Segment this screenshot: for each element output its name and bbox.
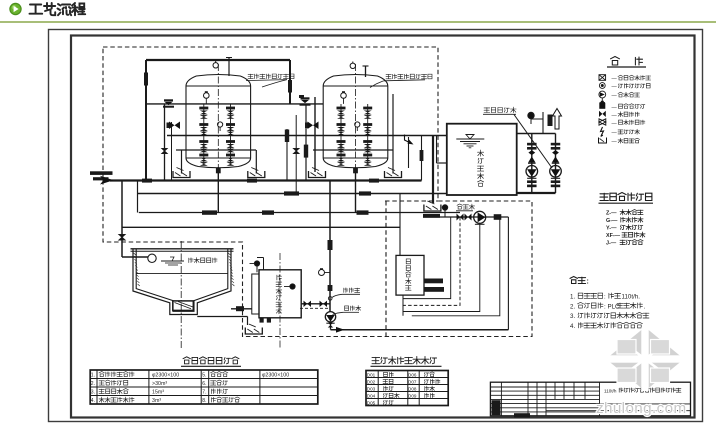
filter bottom stubs xyxy=(260,318,264,323)
drain tray x433 xyxy=(424,205,441,212)
ball valve dosing xyxy=(442,205,447,210)
valve ibeam riser B bottom xyxy=(551,180,561,183)
svg-text:J-—: J-— xyxy=(606,241,617,247)
valve block on sediment outlet xyxy=(236,306,244,311)
svg-text:3m³: 3m³ xyxy=(152,398,161,404)
drain drop x408.5 xyxy=(408,137,410,168)
svg-text:D07: D07 xyxy=(408,380,417,385)
filter top pipe xyxy=(263,258,265,270)
drain tray under T1 left xyxy=(173,171,190,178)
hollow arrow up xyxy=(553,109,562,130)
svg-text::: : xyxy=(587,279,589,286)
tank T1 top pipe xyxy=(228,57,230,76)
valve block x306 xyxy=(305,104,307,181)
right table grid xyxy=(366,371,448,406)
svg-text:5.: 5. xyxy=(202,373,206,379)
dashed segment y201 left ext xyxy=(385,200,438,202)
svg-text:XF-—: XF-— xyxy=(606,233,621,239)
sediment tank rim xyxy=(131,248,234,250)
tank T1 centerline xyxy=(217,64,219,177)
svg-text:—: — xyxy=(612,76,618,82)
label to-ditch hook xyxy=(405,135,412,144)
pipe pump header top xyxy=(517,133,556,135)
dosing unit box xyxy=(396,255,424,295)
valve ibeam riser A top xyxy=(527,143,537,146)
svg-text:—: — xyxy=(612,139,618,145)
pipe header y150 tank2 xyxy=(313,149,393,151)
tank T1 gauge upper xyxy=(204,93,210,99)
left table grid xyxy=(90,370,318,404)
valve diamond riser B xyxy=(552,150,559,155)
backwash drop pipe x330 xyxy=(329,181,331,312)
legend item centrifugal pump xyxy=(599,91,606,98)
valve block x550 xyxy=(548,115,553,127)
sediment neck inner box xyxy=(173,301,194,311)
dosing pump P4 xyxy=(474,211,486,223)
valve bowtie pair x174 y125 xyxy=(169,122,180,130)
main discharge run y329.7 xyxy=(331,329,509,331)
valve bowtie on dosing line xyxy=(457,214,464,221)
valve block on manifold b xyxy=(247,179,257,183)
svg-text:D01: D01 xyxy=(367,373,376,378)
header green rule xyxy=(0,21,716,23)
inner border frame xyxy=(71,36,695,418)
valve blocks on dosing line xyxy=(423,214,440,218)
svg-text:8.: 8. xyxy=(202,398,206,404)
dashed tail y308 xyxy=(300,307,328,309)
filter unit centerline xyxy=(279,253,281,348)
valve bowtie on y303.8 a xyxy=(304,301,312,307)
pipe long header y135.5 xyxy=(167,135,447,137)
legend item electric butterfly valve xyxy=(599,103,605,109)
svg-text:—: — xyxy=(612,112,618,118)
svg-text:4.: 4. xyxy=(91,398,95,404)
pump P1 xyxy=(526,166,538,178)
icon: green play bullet xyxy=(10,3,21,14)
svg-text:>30m³: >30m³ xyxy=(152,381,167,387)
pipe drop x433 thick xyxy=(432,136,434,203)
sediment tank label xyxy=(189,258,217,263)
svg-text:G-—: G-— xyxy=(606,218,618,224)
pipe riser left of tank1 xyxy=(145,60,147,181)
gauge on backwash pipe xyxy=(319,270,325,276)
svg-text:D02: D02 xyxy=(367,380,376,385)
signal line L2 dashed xyxy=(403,217,460,305)
valve double-triangle on x122 xyxy=(119,235,125,241)
valve block on manifold a xyxy=(142,179,152,183)
dosing unit label xyxy=(406,259,410,264)
sediment tank centerline xyxy=(180,241,182,350)
tank T1 valve column right xyxy=(226,107,235,110)
pipe-code heading xyxy=(600,193,652,201)
title block outline xyxy=(490,382,690,416)
supply break bars xyxy=(90,171,113,175)
supply break bar2 xyxy=(93,177,109,180)
valve ibeam riser A bottom xyxy=(527,180,537,183)
valve cluster left of T1 on y104 xyxy=(164,99,173,101)
sediment to filter pipe xyxy=(231,308,252,310)
sediment tank shell outer xyxy=(133,249,231,315)
water level symbol in clean tank xyxy=(456,138,484,140)
label to drain bottom xyxy=(345,306,361,311)
legend item check valve xyxy=(599,111,606,117)
tank T2 vessel body xyxy=(323,75,388,168)
pipe drop x421.5 xyxy=(421,136,423,181)
legend item drain gutter xyxy=(599,138,607,144)
watermark logo xyxy=(606,327,684,391)
tank T1 top vent fitting xyxy=(213,63,218,68)
valve block on riser x290 xyxy=(288,80,292,93)
pipe link x137.5 xyxy=(137,181,139,213)
svg-text:—: — xyxy=(612,104,618,110)
drop pipe x543 xyxy=(542,112,544,134)
title block black cell xyxy=(492,400,501,415)
tank T2 gauge upper xyxy=(341,93,347,99)
node circle backwash xyxy=(328,297,332,301)
tank T2 inner pipe left xyxy=(340,104,342,163)
tank T2 gauge mid xyxy=(355,122,360,127)
leader diagonal to pump xyxy=(514,115,552,169)
svg-text:: PLC: : PLC xyxy=(604,303,620,310)
svg-text:1.: 1. xyxy=(570,294,575,301)
svg-text:110t/h.: 110t/h. xyxy=(622,294,641,301)
svg-text:.: . xyxy=(644,303,646,310)
ball valve top right xyxy=(528,112,534,118)
label coagulant xyxy=(457,204,475,209)
drain tray bottom center xyxy=(245,328,262,335)
pipe manifold y193.5 xyxy=(138,193,447,195)
pump P3 outlet xyxy=(330,322,332,330)
pump P2 xyxy=(550,166,562,178)
svg-text:—: — xyxy=(612,130,618,136)
valve block on manifold c xyxy=(369,179,379,183)
dosing unit feed xyxy=(399,194,401,256)
dosing unit stub a xyxy=(424,279,443,284)
pipe vertical x297 xyxy=(295,115,297,194)
raw water inlet run y257 xyxy=(122,256,148,258)
tank T1 inner pipe left xyxy=(203,104,205,163)
filter inlet ball xyxy=(254,261,259,266)
svg-text:2.: 2. xyxy=(570,303,575,310)
title block black bar bottom xyxy=(514,413,530,417)
pipe header y104 xyxy=(146,103,323,105)
clean tank vertical label xyxy=(478,150,484,156)
backwash pump P3 xyxy=(325,312,335,322)
pipe riser left of tank2 xyxy=(314,97,316,172)
pipe vertical x287 xyxy=(286,129,288,181)
svg-text:2.: 2. xyxy=(91,381,95,387)
dashed boundary polygon xyxy=(103,47,532,337)
tank T2 inner pipe right xyxy=(367,104,369,163)
sediment tank shell inner xyxy=(136,249,228,311)
svg-text:φ2300×100: φ2300×100 xyxy=(262,373,289,379)
tank T1 inner pipe right xyxy=(230,104,232,163)
label air-supply T2 xyxy=(386,74,432,79)
svg-text:6.: 6. xyxy=(202,381,206,387)
svg-text:15m³: 15m³ xyxy=(152,390,164,396)
label air-supply T1 xyxy=(248,74,294,79)
check valve riser A xyxy=(528,156,536,162)
sediment tank inlet circle xyxy=(148,254,156,262)
svg-text:D08: D08 xyxy=(408,387,417,392)
dashed vertical x386 xyxy=(385,201,387,337)
drain tray under T1 right xyxy=(248,171,265,178)
label backwash water xyxy=(344,288,360,293)
filter gauge ball xyxy=(290,284,295,289)
sediment tank wall hatch xyxy=(134,253,136,255)
label to-demi-tank xyxy=(484,107,516,113)
dosing unit stub b xyxy=(424,287,444,292)
dosing unit drain xyxy=(402,295,404,316)
valve block y212.5 c xyxy=(357,210,369,214)
signal line L3 xyxy=(403,224,480,312)
svg-text:Z-—: Z-— xyxy=(606,211,617,217)
pipe top air manifold tank1 xyxy=(146,59,290,61)
legend item manual diaphragm valve xyxy=(599,83,605,89)
pipe drop x366 to tank2 dome xyxy=(365,66,367,77)
filter unit vertical label xyxy=(277,275,282,280)
tank T2 centerline xyxy=(355,64,357,177)
legend item sampling valve xyxy=(601,127,604,136)
valve diamond riser A xyxy=(528,150,535,155)
legend title xyxy=(611,57,620,66)
tank T1 valve column left xyxy=(199,107,208,110)
valve block on riser x146 xyxy=(144,73,148,86)
valve bowtie on y303.8 b xyxy=(320,301,328,307)
pipe riser right of tank1 xyxy=(289,60,291,105)
svg-text:3.: 3. xyxy=(91,390,95,396)
tank T2 top vent fitting xyxy=(350,63,355,68)
signal line L4 xyxy=(412,217,500,316)
tank T2 valve column right xyxy=(363,107,372,110)
tank T2 valve column left xyxy=(337,107,346,110)
valve block right of P4 xyxy=(494,214,502,220)
svg-text:zhulong.com: zhulong.com xyxy=(596,400,687,417)
filter unit side panel xyxy=(252,274,259,314)
raw water inlet drop x122 xyxy=(121,181,123,258)
pipe pump return bottom xyxy=(517,192,556,194)
svg-text:D09: D09 xyxy=(408,394,417,399)
svg-text:—: — xyxy=(612,93,618,99)
valve block y193.5 a xyxy=(284,191,299,195)
water level symbol sediment xyxy=(161,260,184,262)
dosing line y217 xyxy=(423,216,508,218)
title text 工艺流程 xyxy=(30,3,86,15)
valve bowtie pair x313 y125 xyxy=(308,122,319,130)
right table heading xyxy=(372,357,437,365)
svg-text:110t/h: 110t/h xyxy=(604,388,617,393)
tank T1 gauge mid xyxy=(218,122,223,127)
tank T1 vessel body xyxy=(186,75,251,168)
svg-text:φ2300×100: φ2300×100 xyxy=(152,373,179,379)
svg-text:7.: 7. xyxy=(202,390,206,396)
signal line L5 riser xyxy=(507,217,509,330)
supply flow arrow xyxy=(100,176,114,185)
left table heading xyxy=(183,357,239,364)
drain tray under T2 right xyxy=(385,171,402,178)
pipe vertical x164.5 xyxy=(164,104,166,181)
valve block y193.5 b xyxy=(359,191,371,195)
svg-text:D06: D06 xyxy=(408,373,417,378)
svg-text:D05: D05 xyxy=(367,401,376,406)
pipe header y150 tank1 xyxy=(176,149,256,151)
svg-text:1.: 1. xyxy=(91,373,95,379)
svg-text:D03: D03 xyxy=(367,387,376,392)
pipe run y227.3 xyxy=(122,226,400,228)
sediment outlet pipe xyxy=(197,316,247,318)
svg-text:3.: 3. xyxy=(570,313,575,320)
notes heading xyxy=(570,277,586,284)
valve block backwash upper xyxy=(328,240,333,250)
title block grid xyxy=(490,386,599,388)
legend item manual butterfly valve xyxy=(599,119,606,125)
flow arrow on discharge xyxy=(336,327,345,333)
pipe stub to clean tank y163 xyxy=(437,162,447,164)
clean water tank xyxy=(447,124,517,195)
svg-text:—: — xyxy=(612,84,618,90)
filter outlet run y303.8 xyxy=(301,303,330,305)
valve block y212.5 a xyxy=(202,210,217,214)
valve block y212.5 b xyxy=(262,210,274,214)
pump riser B xyxy=(555,134,557,194)
svg-text:—: — xyxy=(612,120,618,126)
pipe vertical x171.5 xyxy=(171,122,173,181)
sediment tank water line xyxy=(136,273,228,275)
valve ibeam riser B top xyxy=(551,143,561,146)
svg-text:4.: 4. xyxy=(570,323,575,330)
tank T1 bottom drop xyxy=(217,167,219,213)
filter unit body xyxy=(259,270,301,318)
svg-text:Y-—: Y-— xyxy=(606,226,617,232)
signal line L1 xyxy=(403,217,451,299)
pump riser A xyxy=(531,134,533,194)
check valve riser B xyxy=(552,156,560,162)
pipe drop x436.5 xyxy=(436,136,438,164)
pipe manifold y212.5 xyxy=(139,212,460,214)
valve block backwash mid xyxy=(328,285,333,291)
legend item pneumatic diaphragm valve xyxy=(599,75,606,81)
svg-text:D04: D04 xyxy=(367,394,376,399)
valve cluster left of T2 on y104 xyxy=(301,97,310,99)
tank T2 bottom drop xyxy=(355,167,357,213)
drain tray under T2 left xyxy=(309,171,326,178)
pipe main bottom manifold y180.5 xyxy=(110,179,422,181)
